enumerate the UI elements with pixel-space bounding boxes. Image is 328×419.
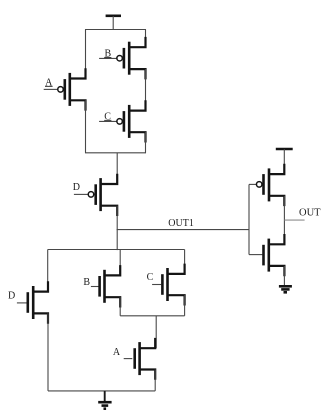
wire output node: [283, 196, 285, 245]
wire ground rail: [48, 390, 155, 392]
pmos B: [99, 37, 145, 80]
wire pull-up bottom rail: [85, 152, 146, 154]
wire OUT1 to inverter gate: [249, 184, 262, 254]
wire rail to nmos C drain: [184, 250, 186, 274]
VDD supply (right): [276, 149, 293, 174]
nmos B: [91, 265, 120, 307]
wire rail to nmos B drain: [119, 250, 121, 276]
wire nmos C source down: [184, 295, 186, 316]
nmos U2 (output inverter pull-down): [264, 234, 285, 276]
pmos C: [99, 100, 145, 142]
ground (right): [279, 286, 292, 292]
wire rail to nmos D drain: [47, 250, 49, 292]
wire A source down: [85, 100, 87, 153]
wire rail to nmos A drain: [155, 316, 157, 348]
wire nmos source to ground: [283, 266, 285, 286]
pmos A: [44, 68, 86, 110]
pmos B label: [104, 48, 111, 59]
wire VDD rail to B drain: [145, 30, 147, 48]
wire nmos A source down: [154, 370, 156, 391]
wire OUT stub: [284, 219, 304, 221]
VDD supply (top): [106, 16, 121, 30]
wire rail to D drain: [116, 153, 118, 184]
ground (bottom): [98, 391, 111, 409]
wire B C sources rail: [120, 315, 184, 317]
wire nmos B source down: [119, 297, 121, 316]
svg-text:A: A: [113, 347, 121, 358]
nmos A: [124, 338, 156, 380]
nmos D: [17, 281, 48, 323]
wire OUT1: [117, 229, 249, 231]
wire VDD rail to A drain: [85, 30, 87, 79]
nmos C: [152, 264, 185, 306]
wire C source down: [145, 132, 147, 153]
wire B source to C drain: [145, 69, 147, 111]
wire D source to OUT1 node: [116, 206, 118, 250]
wire pull-down top rail: [48, 249, 185, 251]
pmos D: [74, 174, 117, 216]
svg-text:OUT1: OUT1: [168, 218, 194, 229]
svg-text:D: D: [8, 291, 15, 302]
svg-text:OUT: OUT: [299, 208, 321, 219]
svg-text:B: B: [83, 277, 90, 288]
wire nmos D source to ground rail: [47, 313, 49, 391]
pmos C label: [104, 111, 111, 122]
pmos A label: [45, 77, 53, 88]
pmos U2 (output inverter pull-up): [256, 164, 284, 206]
wire top rail: [85, 29, 146, 31]
svg-text:D: D: [73, 182, 80, 193]
svg-text:C: C: [147, 272, 154, 283]
